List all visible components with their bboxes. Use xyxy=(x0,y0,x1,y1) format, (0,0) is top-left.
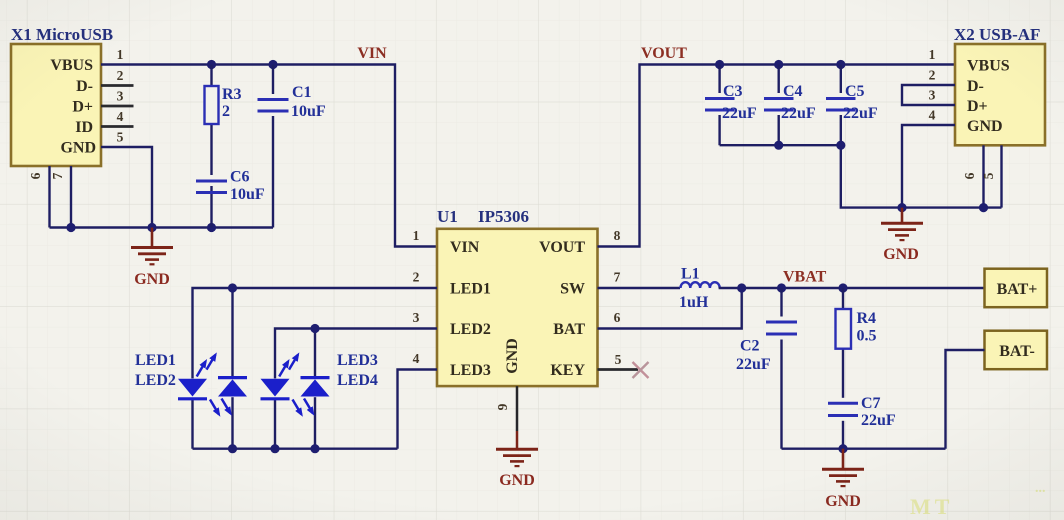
wire R4 branch xyxy=(842,288,844,449)
junction C7 gnd xyxy=(838,444,847,453)
junction rail LED3 xyxy=(270,444,279,453)
wire C4 branch xyxy=(778,65,780,146)
svg-text:LED4: LED4 xyxy=(337,372,378,389)
junction rail LED4 xyxy=(310,444,319,453)
X1 pin names xyxy=(50,57,96,157)
svg-text:4: 4 xyxy=(929,108,936,123)
svg-text:D-: D- xyxy=(967,78,984,95)
svg-text:GND: GND xyxy=(504,338,521,374)
ground symbol U1 xyxy=(496,449,538,489)
junction R3C6-rail xyxy=(207,223,216,232)
svg-text:KEY: KEY xyxy=(550,362,585,379)
resistor R4 xyxy=(836,309,877,349)
svg-text:X2 USB-AF: X2 USB-AF xyxy=(954,25,1040,44)
svg-text:4: 4 xyxy=(117,109,124,124)
no-connect X on KEY xyxy=(633,362,649,378)
svg-text:BAT+: BAT+ xyxy=(997,281,1038,298)
svg-text:4: 4 xyxy=(413,351,420,366)
svg-text:LED2: LED2 xyxy=(450,321,491,338)
svg-text:R4: R4 xyxy=(857,310,877,327)
svg-text:6: 6 xyxy=(28,172,43,179)
svg-text:VIN: VIN xyxy=(357,45,387,62)
svg-text:C1: C1 xyxy=(292,84,312,101)
svg-text:ID: ID xyxy=(75,119,93,136)
svg-text:BAT-: BAT- xyxy=(999,343,1035,360)
svg-text:VBUS: VBUS xyxy=(967,58,1010,75)
svg-text:GND: GND xyxy=(825,493,861,510)
junction pin7-rail xyxy=(66,223,75,232)
junction R3 top on VBUS rail xyxy=(207,60,216,69)
capacitor C2 xyxy=(736,317,797,374)
junction C3 top xyxy=(715,60,724,69)
wire U1 pin7 SW to inductor xyxy=(598,287,681,289)
IC U1 IP5306 xyxy=(437,207,598,386)
ground symbol X2 xyxy=(881,208,923,263)
svg-text:22uF: 22uF xyxy=(736,356,771,373)
svg-text:D+: D+ xyxy=(967,98,988,115)
svg-text:7: 7 xyxy=(614,270,621,285)
svg-text:D+: D+ xyxy=(72,99,93,116)
port BAT+ xyxy=(985,269,1048,308)
svg-text:VIN: VIN xyxy=(450,239,480,256)
svg-text:6: 6 xyxy=(962,172,977,179)
wire X2 pin4 GND down xyxy=(902,125,955,208)
svg-text:LED3: LED3 xyxy=(337,352,378,369)
LED D1 D2 pair xyxy=(178,355,248,414)
wire LED4 branch vertical xyxy=(314,329,316,449)
ground symbol X1 xyxy=(131,228,173,289)
wire U1 pin2 LED1 to led ladder xyxy=(193,288,438,449)
svg-text:IP5306: IP5306 xyxy=(478,207,529,226)
svg-text:R3: R3 xyxy=(222,86,242,103)
svg-text:1: 1 xyxy=(117,47,124,62)
X1 pin 7 stub xyxy=(50,166,71,228)
U1 pin numbers xyxy=(413,228,622,367)
svg-text:10uF: 10uF xyxy=(291,103,326,120)
junction LED4 top xyxy=(310,324,319,333)
ground symbol VBAT xyxy=(822,449,864,510)
wire C3 C4 C5 bottom rail xyxy=(720,145,1002,207)
svg-text:U1: U1 xyxy=(437,207,458,226)
junction C1 top on VBUS rail xyxy=(268,60,277,69)
wire BAT- to bottom rail xyxy=(946,350,985,449)
wire X1 pin5 GND to left ground rail xyxy=(101,147,152,228)
wire C1 branch vertical xyxy=(272,65,274,228)
svg-text:SW: SW xyxy=(560,281,585,298)
svg-text:2: 2 xyxy=(117,68,124,83)
svg-text:GND: GND xyxy=(60,140,96,157)
wire U1 pin3 LED2 xyxy=(275,329,437,449)
svg-text:...: ... xyxy=(1035,481,1046,496)
junction C2 top xyxy=(777,283,786,292)
junction C4 bottom xyxy=(774,141,783,150)
svg-text:VBUS: VBUS xyxy=(50,57,93,74)
junction X2 gnd rail left xyxy=(897,203,906,212)
svg-text:3: 3 xyxy=(117,89,124,104)
svg-text:D-: D- xyxy=(76,78,93,95)
wire C5 branch xyxy=(840,65,842,146)
inductor L1 xyxy=(679,266,720,312)
port BAT- xyxy=(985,331,1048,370)
svg-text:VOUT: VOUT xyxy=(641,45,687,62)
svg-text:9: 9 xyxy=(495,403,510,410)
svg-text:22uF: 22uF xyxy=(843,105,878,122)
capacitor C1 xyxy=(258,84,326,120)
svg-text:22uF: 22uF xyxy=(722,105,757,122)
svg-text:GND: GND xyxy=(499,472,535,489)
svg-text:GND: GND xyxy=(967,118,1003,135)
svg-text:1: 1 xyxy=(413,228,420,243)
wire R3 branch vertical xyxy=(210,65,212,228)
X2 pin names xyxy=(967,58,1010,136)
U1 pin 9 stub xyxy=(495,386,517,448)
junction LED2 top xyxy=(228,283,237,292)
svg-text:2: 2 xyxy=(413,270,420,285)
X1 pin 6 stub xyxy=(28,166,50,228)
svg-text:1: 1 xyxy=(929,47,936,62)
wire C2 branch xyxy=(780,288,782,449)
svg-text:LED1: LED1 xyxy=(450,281,491,298)
junction BAT-VBAT xyxy=(737,283,746,292)
svg-text:5: 5 xyxy=(615,352,622,367)
junction C5 top xyxy=(836,60,845,69)
svg-text:C7: C7 xyxy=(861,395,881,412)
svg-text:LED1: LED1 xyxy=(135,352,176,369)
capacitor C6 xyxy=(196,169,265,204)
junction C4 top xyxy=(774,60,783,69)
capacitor C4 xyxy=(764,83,816,122)
wire LED bottom rail xyxy=(193,448,398,450)
junction R4 top xyxy=(838,283,847,292)
connector X2 USB-AF xyxy=(954,25,1045,145)
svg-text:2: 2 xyxy=(929,68,936,83)
svg-text:C5: C5 xyxy=(845,83,865,100)
X2 pin numbers xyxy=(929,47,936,123)
junction rail LED2 xyxy=(228,444,237,453)
svg-text:1uH: 1uH xyxy=(679,294,709,311)
watermark xyxy=(910,481,1046,519)
capacitor C5 xyxy=(826,83,878,122)
X1 pin 4 stub ID xyxy=(101,109,134,127)
junction C5 bottom xyxy=(836,141,845,150)
svg-text:C2: C2 xyxy=(740,338,760,355)
U1 pin 5 KEY stub xyxy=(598,368,639,371)
wire X2 D- D+ loop xyxy=(902,85,955,105)
svg-text:GND: GND xyxy=(134,271,170,288)
svg-text:X1 MicroUSB: X1 MicroUSB xyxy=(11,25,113,44)
svg-text:L1: L1 xyxy=(681,266,700,283)
wire U1 pin8 VOUT up to rail xyxy=(598,65,956,247)
wire left bottom ground rail xyxy=(50,226,274,228)
svg-text:7: 7 xyxy=(50,172,65,179)
svg-text:22uF: 22uF xyxy=(781,105,816,122)
connector X1 MicroUSB xyxy=(11,25,113,166)
X2 pin 5 stub xyxy=(981,145,1002,207)
svg-text:VBAT: VBAT xyxy=(783,269,827,286)
X1 pin 2 stub D- xyxy=(101,68,134,86)
wire L1 to BAT+ xyxy=(719,287,985,289)
capacitor C7 xyxy=(828,395,896,429)
LED D3 D4 pair xyxy=(260,355,330,414)
wire U1 pin4 LED3 xyxy=(398,370,438,449)
svg-text:2: 2 xyxy=(222,103,230,120)
wire U1 pin6 BAT up to VBAT xyxy=(598,288,742,329)
wire battery bottom rail xyxy=(782,448,946,450)
svg-text:C6: C6 xyxy=(230,169,250,186)
resistor R3 xyxy=(205,86,242,124)
junction X2 pin6 rail xyxy=(979,203,988,212)
wire C3 branch xyxy=(718,65,720,146)
svg-text:LED2: LED2 xyxy=(135,372,176,389)
svg-text:8: 8 xyxy=(614,228,621,243)
U1 pin names right xyxy=(539,239,585,379)
wire VBUS rail from X1 pin1 to corner and down to U1 pin1 xyxy=(101,65,437,247)
svg-text:10uF: 10uF xyxy=(230,186,265,203)
wire LED2 branch vertical xyxy=(231,288,233,449)
svg-text:22uF: 22uF xyxy=(861,412,896,429)
svg-text:C3: C3 xyxy=(723,83,743,100)
svg-text:BAT: BAT xyxy=(553,321,585,338)
junction gnd-rail xyxy=(147,223,156,232)
svg-text:МТ: МТ xyxy=(910,494,953,519)
X2 pin 6 stub xyxy=(962,145,984,207)
svg-text:3: 3 xyxy=(929,88,936,103)
svg-text:LED3: LED3 xyxy=(450,362,491,379)
svg-text:GND: GND xyxy=(883,246,919,263)
svg-text:VOUT: VOUT xyxy=(539,239,585,256)
X1 pin 3 stub D+ xyxy=(101,89,134,107)
capacitor C3 xyxy=(705,83,757,122)
U1 pin names left xyxy=(450,239,491,379)
svg-text:5: 5 xyxy=(981,172,996,179)
svg-text:6: 6 xyxy=(614,310,621,325)
svg-text:C4: C4 xyxy=(783,83,803,100)
svg-text:0.5: 0.5 xyxy=(857,328,877,345)
svg-text:5: 5 xyxy=(117,130,124,145)
svg-text:3: 3 xyxy=(413,310,420,325)
